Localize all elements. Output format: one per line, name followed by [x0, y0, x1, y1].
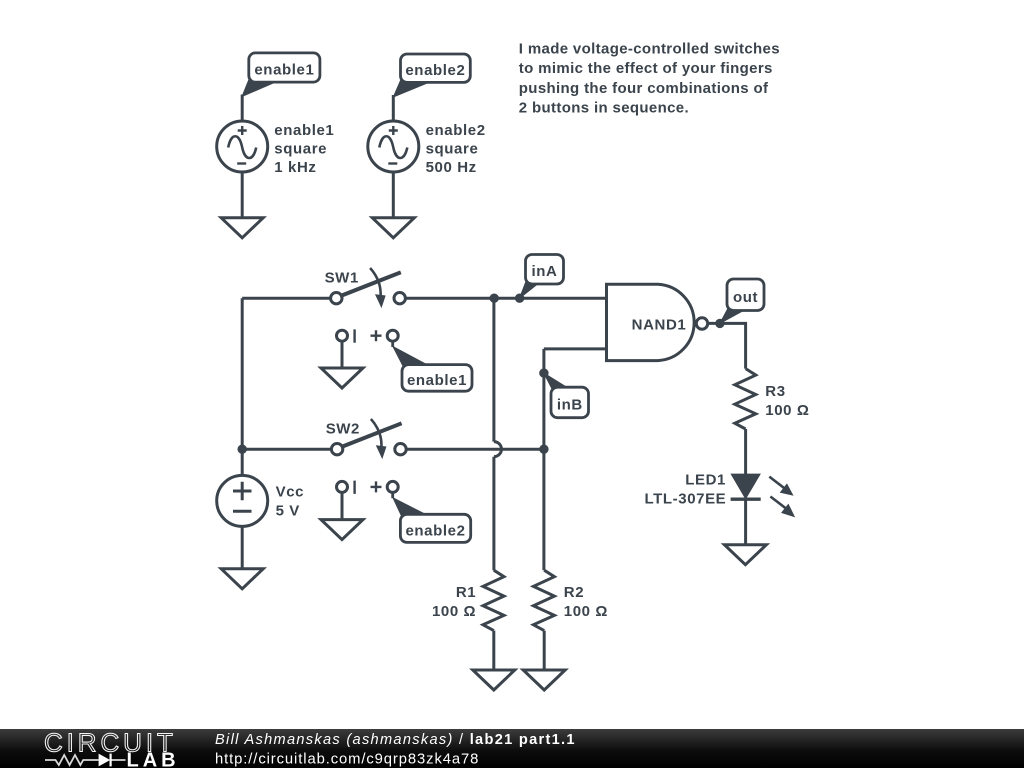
- nand NAND1 output bubble: [696, 318, 707, 329]
- svg-text:SW1: SW1: [325, 269, 359, 286]
- SW1 control terminals: [337, 329, 399, 347]
- label NAND1: [632, 316, 687, 333]
- ground (under R1): [473, 670, 515, 690]
- wire SW1 left: [242, 297, 330, 300]
- wire LED-to-ground: [744, 499, 747, 545]
- net flag enable2 (SW2 control): [393, 498, 471, 543]
- svg-text:pushing the four combinations: pushing the four combinations of: [519, 80, 769, 97]
- label R2 100 Ohm: [564, 584, 608, 620]
- ground (under Vcc): [221, 569, 263, 589]
- wire SW1-to-NAND inA: [406, 297, 606, 300]
- label R3 100 Ohm: [765, 383, 809, 419]
- voltage source V1 Vcc: [217, 475, 268, 526]
- wire SW2 control to ground: [341, 492, 344, 519]
- svg-text:out: out: [733, 289, 758, 306]
- ground (under LED1): [724, 545, 766, 565]
- svg-text:R3: R3: [765, 383, 785, 400]
- svg-text:100 Ω: 100 Ω: [432, 603, 476, 620]
- junction dot (Vcc/SW2): [238, 445, 247, 454]
- svg-text:1 kHz: 1 kHz: [274, 159, 316, 176]
- ground (under V3): [221, 218, 263, 238]
- wire SW1 control to ground: [341, 341, 344, 368]
- node dot inB anchor: [539, 368, 548, 377]
- wire R1 column lower: [492, 457, 495, 571]
- label V1 Vcc 5 V: [276, 484, 305, 520]
- ground (SW2 control): [321, 520, 363, 540]
- svg-text:enable1: enable1: [254, 62, 314, 79]
- resistor R1: [483, 570, 504, 630]
- led light arrow 1: [769, 477, 792, 495]
- svg-text:http://circuitlab.com/c9qrp83z: http://circuitlab.com/c9qrp83zk4a78: [215, 752, 479, 768]
- net flag enable1 (top): [242, 53, 320, 97]
- net flag out: [720, 279, 764, 323]
- wire R2-to-ground: [543, 631, 546, 670]
- wire left vertical: [241, 298, 244, 475]
- svg-text:enable2: enable2: [426, 122, 486, 139]
- wire V3-to-ground: [241, 172, 244, 218]
- voltage source V4 enable2: [368, 121, 419, 172]
- wire Vcc-to-ground: [241, 526, 244, 568]
- svg-text:enable1: enable1: [407, 372, 467, 389]
- node dot inA anchor: [515, 294, 524, 303]
- wire hop over SW2 row: [494, 442, 502, 457]
- junction dot (SW2/R2): [539, 445, 548, 454]
- wire flag-to-V3: [241, 95, 244, 122]
- svg-text:square: square: [426, 140, 479, 157]
- wire flag-to-V4: [392, 95, 395, 121]
- node dot out anchor: [715, 319, 724, 328]
- svg-text:enable1: enable1: [274, 122, 334, 139]
- led light arrow 2: [770, 497, 794, 517]
- net flag inB: [544, 373, 589, 418]
- wire R1-to-ground: [492, 631, 495, 670]
- resistor R3: [735, 369, 756, 429]
- junction dot (inA column R1): [490, 294, 499, 303]
- wire R3-to-LED: [744, 429, 747, 475]
- label LED1 LTL-307EE: [644, 472, 726, 508]
- label V3 enable1 square 1 kHz: [274, 122, 334, 176]
- wire inB horizontal: [544, 347, 607, 350]
- ground (under R2): [523, 670, 565, 690]
- annotation text block: [519, 41, 780, 117]
- voltage source V3 enable1: [217, 121, 268, 172]
- svg-text:LAB: LAB: [127, 749, 180, 768]
- wire R1 column upper: [492, 298, 495, 441]
- switch SW1: [325, 268, 406, 307]
- led LED1 triangle: [732, 474, 760, 498]
- switch SW2: [326, 419, 407, 458]
- nand gate NAND1 body: [607, 284, 695, 360]
- net flag enable2 (top): [393, 54, 470, 97]
- svg-text:R2: R2: [564, 584, 584, 601]
- svg-text:I made voltage-controlled swit: I made voltage-controlled switches: [519, 41, 780, 58]
- svg-text:500 Hz: 500 Hz: [426, 159, 477, 176]
- wire inB vertical / R2 column: [542, 349, 545, 570]
- footer bar: [0, 729, 1024, 768]
- svg-text:enable2: enable2: [405, 62, 465, 79]
- svg-text:100 Ω: 100 Ω: [564, 603, 608, 620]
- wire SW2 left: [242, 448, 331, 451]
- svg-text:enable2: enable2: [405, 522, 465, 539]
- svg-text:100 Ω: 100 Ω: [765, 402, 809, 419]
- svg-text:2 buttons in sequence.: 2 buttons in sequence.: [519, 100, 689, 117]
- svg-text:SW2: SW2: [326, 420, 360, 437]
- SW2 control terminals: [337, 481, 399, 499]
- svg-text:to mimic the effect of your fi: to mimic the effect of your fingers: [519, 60, 773, 77]
- ground (SW1 control): [321, 368, 363, 388]
- wire V4-to-ground: [392, 172, 395, 218]
- svg-text:R1: R1: [456, 584, 476, 601]
- svg-text:NAND1: NAND1: [632, 316, 687, 333]
- svg-text:5 V: 5 V: [276, 502, 300, 519]
- svg-text:square: square: [274, 140, 327, 157]
- CircuitLab logo resistor-diode symbol: [45, 755, 126, 765]
- label R1 100 Ohm: [432, 584, 476, 620]
- svg-text:LED1: LED1: [685, 472, 726, 489]
- ground (under V4): [372, 218, 414, 238]
- wire NAND output to R3: [708, 323, 746, 368]
- net flag enable1 (SW1 control): [393, 347, 472, 392]
- svg-text:Bill Ashmanskas (ashmanskas) /: Bill Ashmanskas (ashmanskas) / lab21 par…: [215, 732, 576, 748]
- net flag inA: [520, 255, 564, 299]
- svg-text:inA: inA: [532, 263, 558, 280]
- svg-text:LTL-307EE: LTL-307EE: [644, 491, 726, 508]
- resistor R2: [533, 570, 554, 630]
- svg-text:Vcc: Vcc: [276, 484, 305, 501]
- led LED1 cathode bar: [731, 498, 761, 501]
- svg-text:inB: inB: [557, 396, 583, 413]
- wire SW2 right: [407, 448, 544, 451]
- label V4 enable2 square 500 Hz: [426, 122, 486, 176]
